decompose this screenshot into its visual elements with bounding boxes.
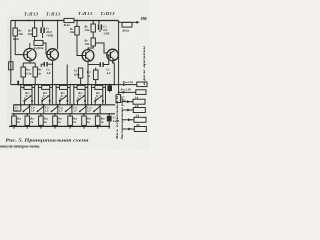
capacitor C1 electrolytic (42, 21, 44, 28)
output line Kdp1a (115, 84, 137, 86)
output arrow 1B (122, 109, 134, 111)
transistor Q1 (24, 49, 36, 61)
resistor Rb1 (12, 116, 17, 125)
resistor R8 (76, 21, 78, 27)
wire mid link (66, 65, 68, 85)
resistor R5 (21, 67, 25, 77)
resistor Rb4 (53, 116, 58, 125)
bottom rail (9, 125, 110, 127)
wire Q3 emitter down (87, 61, 89, 84)
wire R9 to Q3 collector (88, 46, 93, 50)
resistor R17 (93, 70, 98, 80)
resistor Rb6 (82, 116, 87, 125)
resistor R6 (33, 67, 37, 77)
row2 bottom rail (12, 113, 115, 115)
wire right bus (118, 21, 120, 92)
row1 bottom rail (14, 104, 115, 106)
wire Q4 emitter down (113, 61, 115, 85)
wire to -NV terminal (119, 21, 137, 23)
wire R8 to R9 (92, 32, 94, 38)
relay cell 1 (21, 85, 35, 105)
resistor R9 (91, 38, 95, 46)
terminal tick on mid rail (17, 81, 19, 86)
switch S1 (14, 105, 21, 111)
resistor R8b (92, 21, 94, 24)
wire Q1 emitter down (23, 61, 35, 67)
output arrow 2A (122, 119, 134, 121)
output arrow 2B (122, 128, 134, 130)
junction dots lower rails (13, 113, 110, 115)
output line Kdp1b (119, 91, 136, 93)
capacitor C4 (44, 62, 45, 67)
resistor Rb3 (39, 116, 44, 125)
resistor R16 (80, 56, 82, 69)
capacitor C black right (107, 85, 112, 91)
contact row 2 (14, 104, 101, 114)
mid rail (11, 84, 115, 86)
diode D2 (34, 40, 43, 45)
arrow to -NV (136, 21, 139, 24)
wire Q2 emitter down (52, 60, 54, 84)
resistor Rb5 (68, 116, 73, 125)
transistor Q2 (47, 49, 59, 61)
transistor Q3 (82, 50, 94, 62)
wire bottom rail stubs (14, 126, 109, 128)
wire diode to Q2 base (43, 43, 46, 54)
resistor R22 right (116, 95, 121, 103)
capacitor C6 (88, 64, 100, 66)
output arrow 1A (122, 101, 134, 103)
relay cell 5 (92, 85, 106, 105)
wire top supply rail left (11, 20, 64, 22)
resistor Rd in top rail (64, 18, 74, 22)
resistor R2 (14, 21, 16, 29)
wire rail to Q2 collector (57, 21, 59, 50)
resistor Rd1k (122, 22, 132, 27)
resistor Rb7 (95, 116, 100, 125)
resistor row bottom (12, 114, 105, 127)
junction dots top rail (28, 20, 120, 23)
resistor Rb2 (25, 116, 30, 125)
transistor Q4 (107, 49, 119, 61)
wire top supply rail right (74, 20, 119, 22)
wire left bus (10, 21, 12, 85)
junction dots mid rail (22, 84, 119, 94)
relay cell 3 (56, 85, 70, 105)
resistor R1 on left bus (9, 62, 13, 70)
resistor R3 (34, 21, 36, 29)
capacitor C7 electrolytic bottom (107, 116, 112, 122)
relay cell 4 (74, 85, 88, 105)
wire R9 to Q4 base (95, 43, 106, 53)
relay cell 2 (38, 85, 52, 105)
wire Q1 collector up (29, 43, 31, 49)
capacitor C5 (98, 21, 100, 24)
